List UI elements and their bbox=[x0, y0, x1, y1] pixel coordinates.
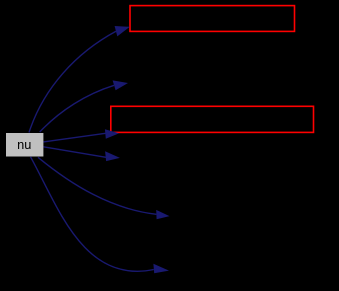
arrowhead: edge nu -> hidden node 4 bbox=[153, 264, 169, 274]
arrowhead: edge nu -> hidden node 1 bbox=[113, 80, 128, 90]
arrowhead: edge nu -> middle box bbox=[105, 129, 119, 139]
node: top red box bbox=[130, 6, 295, 32]
wire: edge nu -> hidden node 2 bbox=[43, 147, 106, 158]
wire: edge nu -> top box bbox=[29, 31, 116, 132]
node: middle red box bbox=[111, 106, 314, 132]
wire: edge nu -> hidden node 1 bbox=[40, 85, 114, 132]
wire: edge nu -> hidden node 4 bbox=[31, 157, 154, 271]
wire: edge nu -> hidden node 3 bbox=[38, 157, 156, 214]
svg-text:nu: nu bbox=[17, 137, 31, 152]
node nu bbox=[6, 133, 43, 157]
wire: edge nu -> middle box bbox=[43, 133, 105, 142]
arrowhead: edge nu -> hidden node 2 bbox=[105, 151, 120, 161]
arrowhead: edge nu -> top box bbox=[115, 26, 130, 36]
arrowhead: edge nu -> hidden node 3 bbox=[156, 210, 169, 219]
